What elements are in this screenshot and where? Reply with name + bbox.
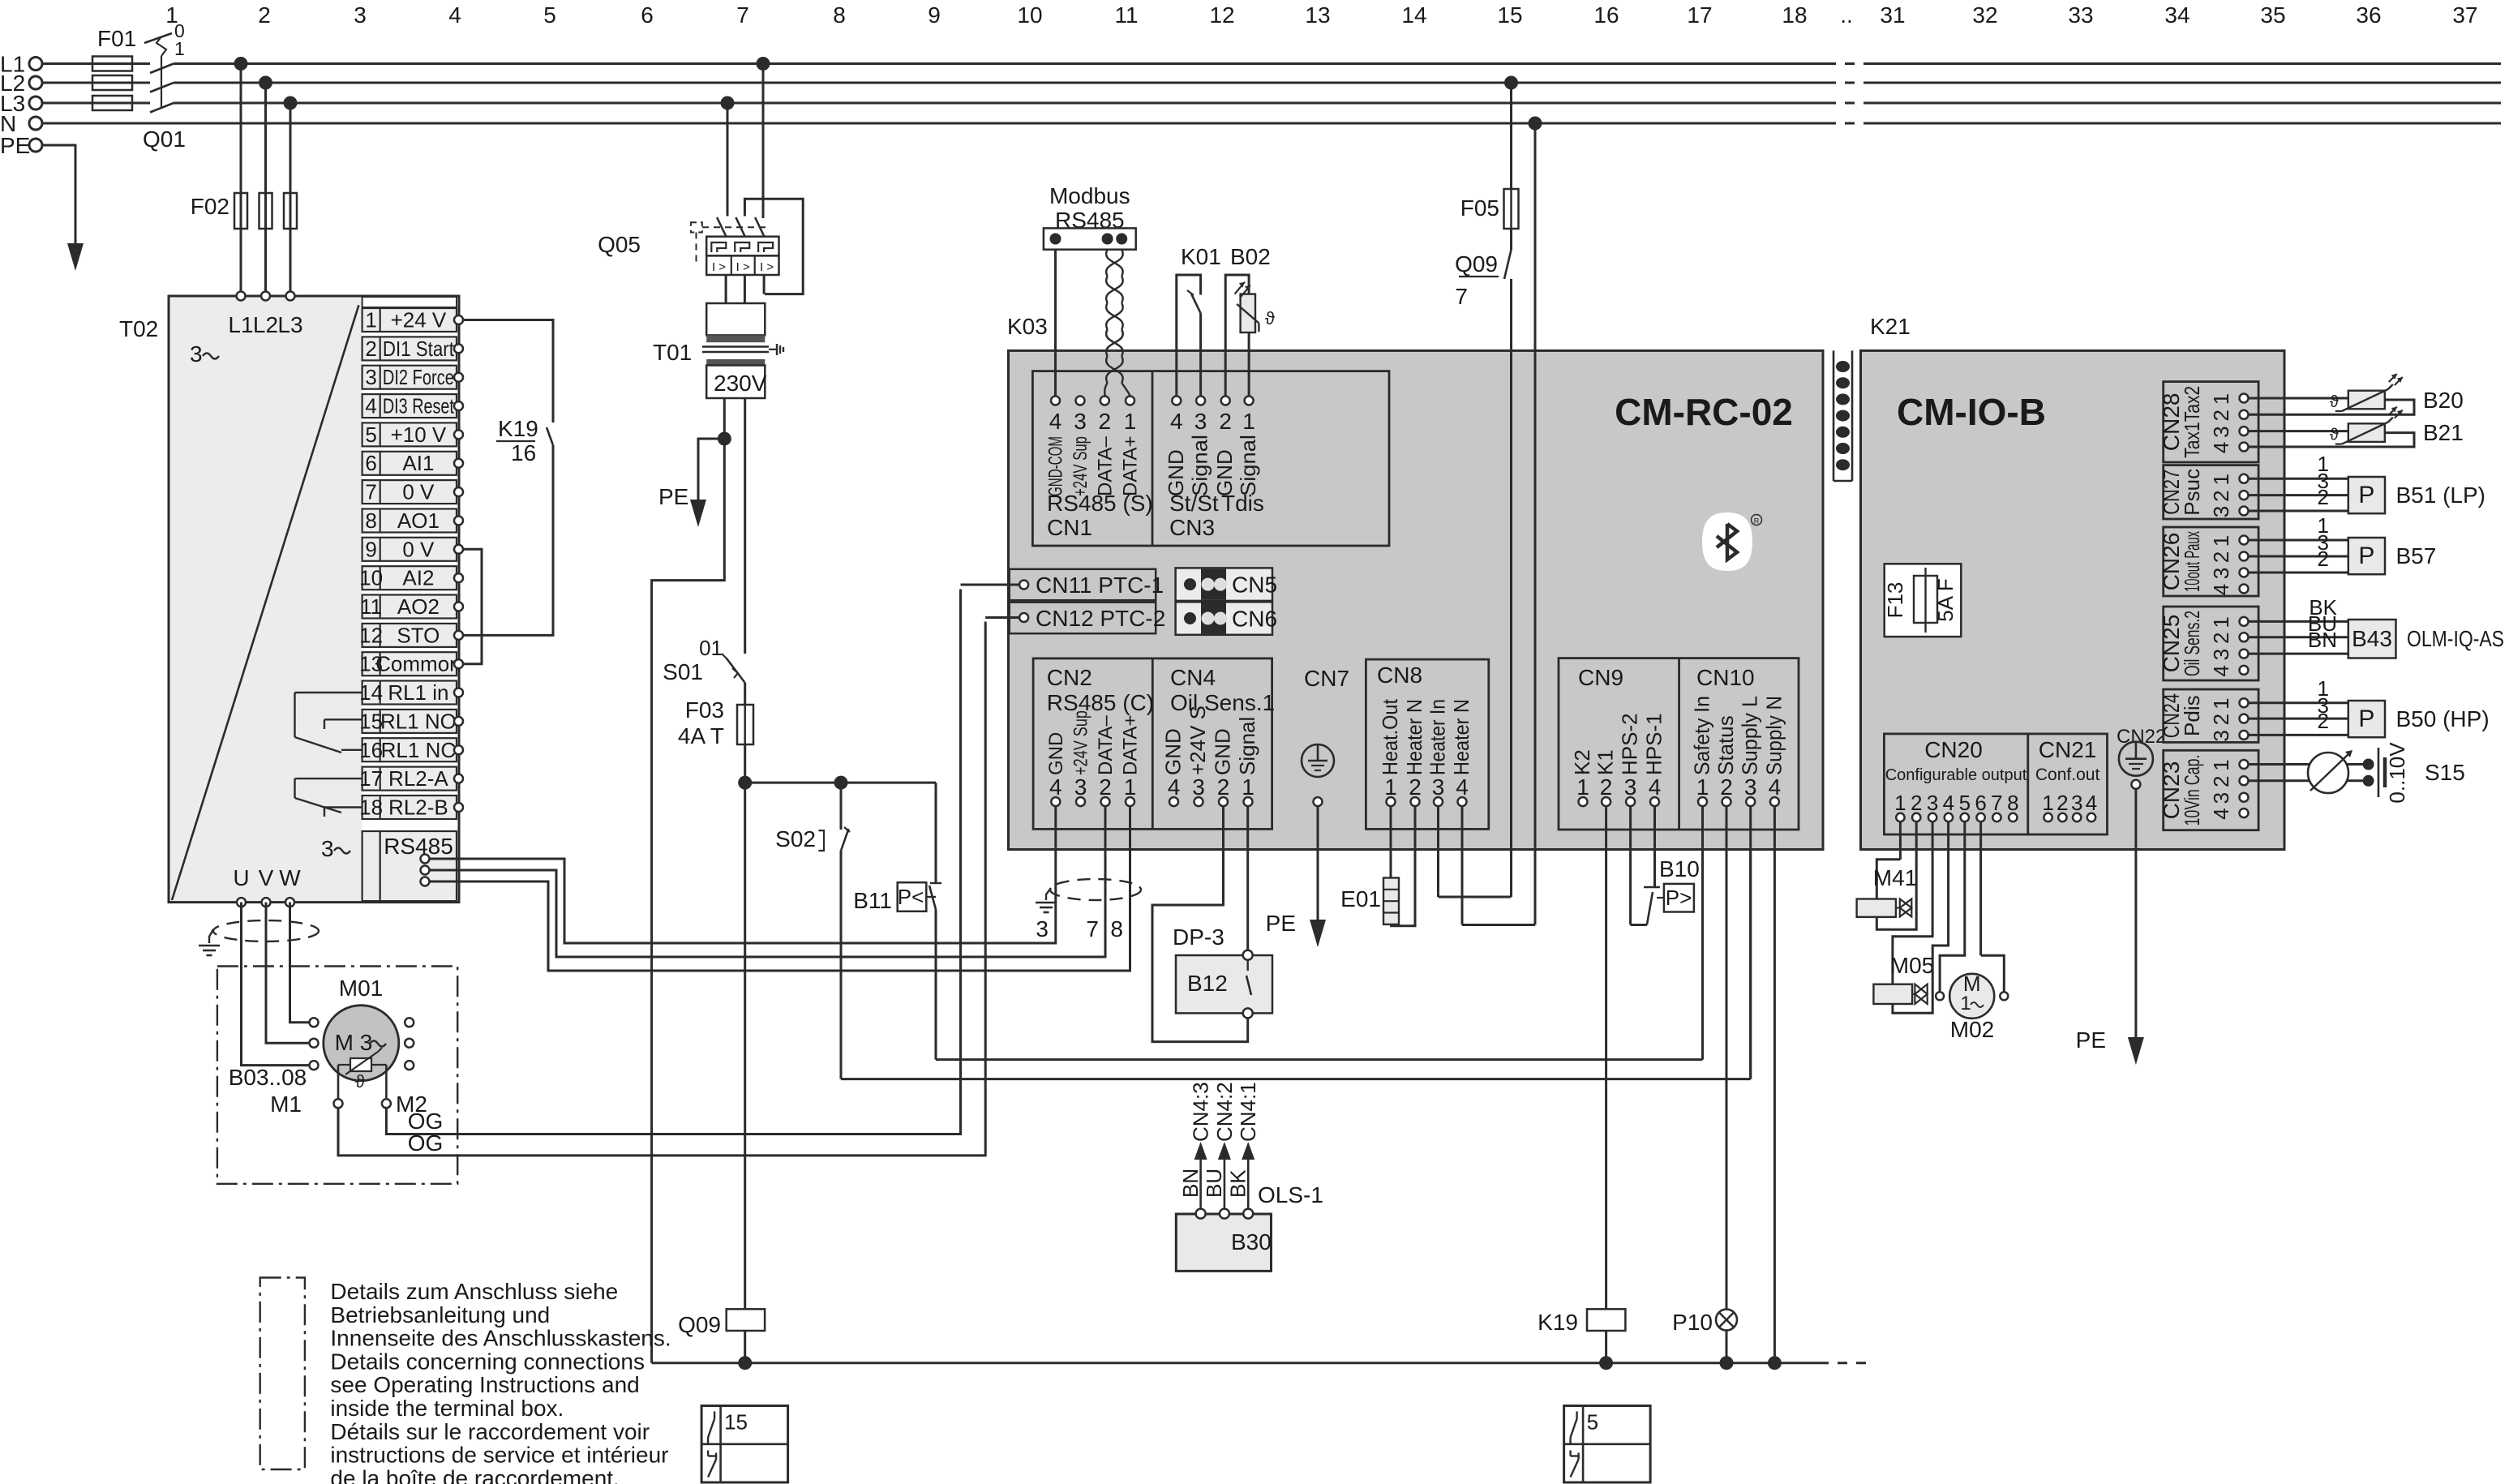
- svg-text:BU: BU: [1202, 1169, 1226, 1198]
- svg-text:ϑ: ϑ: [1265, 308, 1275, 328]
- svg-text:4: 4: [1943, 791, 1954, 815]
- svg-text:3: 3: [321, 836, 334, 861]
- svg-text:B57: B57: [2396, 543, 2437, 568]
- svg-text:AO2: AO2: [397, 594, 440, 619]
- svg-text:3: 3: [1744, 774, 1757, 800]
- svg-text:3: 3: [2071, 791, 2082, 815]
- svg-text:RL1 NC: RL1 NC: [381, 738, 456, 762]
- svg-text:8: 8: [833, 2, 846, 28]
- svg-text:PE: PE: [658, 484, 688, 509]
- svg-text:P<: P<: [898, 885, 924, 909]
- svg-text:4: 4: [2209, 808, 2233, 819]
- svg-text:10: 10: [1017, 2, 1042, 28]
- svg-text:OG: OG: [408, 1130, 444, 1156]
- svg-text:3: 3: [1074, 774, 1087, 800]
- svg-text:+24 V: +24 V: [391, 308, 447, 332]
- svg-text:0..10V: 0..10V: [2385, 742, 2409, 804]
- svg-text:3: 3: [354, 2, 367, 28]
- svg-text:B51 (LP): B51 (LP): [2396, 483, 2486, 508]
- svg-text:1: 1: [1124, 774, 1137, 800]
- svg-text:Conf.out: Conf.out: [2035, 766, 2100, 784]
- svg-text:1: 1: [1576, 774, 1589, 800]
- svg-text:2: 2: [1219, 409, 1232, 434]
- svg-text:I >: I >: [712, 260, 726, 274]
- svg-text:Oil Sens.1: Oil Sens.1: [1170, 690, 1275, 715]
- svg-text:16: 16: [1593, 2, 1619, 28]
- svg-text:I >: I >: [736, 260, 750, 274]
- svg-text:B12: B12: [1187, 971, 1228, 996]
- svg-text:Tax1Tax2: Tax1Tax2: [2180, 386, 2204, 458]
- svg-text:7: 7: [1991, 791, 2002, 815]
- svg-text:GND: GND: [1212, 449, 1237, 496]
- svg-text:Heater N: Heater N: [1402, 699, 1426, 775]
- svg-text:B10: B10: [1659, 856, 1700, 881]
- svg-text:9: 9: [365, 537, 376, 561]
- svg-text:2: 2: [258, 2, 271, 28]
- svg-text:instructions de service et int: instructions de service et intérieur: [330, 1443, 668, 1468]
- svg-text:K1: K1: [1593, 749, 1618, 775]
- svg-text:15: 15: [359, 709, 383, 733]
- svg-text:Psuc: Psuc: [2180, 469, 2204, 516]
- svg-text:2: 2: [2318, 547, 2329, 571]
- svg-text:16: 16: [511, 440, 536, 465]
- svg-text:1: 1: [2209, 535, 2233, 547]
- svg-text:Q09: Q09: [678, 1312, 721, 1337]
- svg-text:+10 V: +10 V: [391, 422, 447, 447]
- svg-text:15: 15: [724, 1410, 748, 1435]
- svg-text:CN7: CN7: [1304, 666, 1349, 691]
- svg-text:AI1: AI1: [402, 451, 434, 475]
- svg-text:01: 01: [699, 636, 723, 660]
- svg-text:1: 1: [2209, 697, 2233, 709]
- svg-text:ϑ: ϑ: [2330, 427, 2339, 444]
- svg-text:4: 4: [1049, 774, 1062, 800]
- svg-text:HPS-1: HPS-1: [1642, 713, 1666, 775]
- svg-text:4: 4: [365, 394, 376, 418]
- svg-text:L2: L2: [253, 312, 278, 337]
- svg-text:+24V Sup: +24V Sup: [1070, 436, 1092, 496]
- svg-text:3: 3: [1927, 791, 1938, 815]
- svg-text:K01: K01: [1181, 244, 1221, 269]
- svg-text:15: 15: [1497, 2, 1522, 28]
- svg-text:0 V: 0 V: [402, 480, 435, 504]
- svg-text:3: 3: [2209, 426, 2233, 437]
- svg-text:DATA–: DATA–: [1095, 715, 1117, 775]
- svg-text:T01: T01: [653, 340, 692, 365]
- svg-text:2: 2: [1409, 774, 1422, 800]
- svg-text:8: 8: [365, 508, 376, 533]
- svg-text:B20: B20: [2423, 388, 2464, 413]
- svg-text:2: 2: [2209, 551, 2233, 563]
- svg-text:3: 3: [365, 365, 376, 389]
- svg-text:0 V: 0 V: [402, 537, 435, 561]
- svg-text:CN4:3: CN4:3: [1189, 1082, 1213, 1142]
- svg-text:RL2-A: RL2-A: [388, 766, 448, 791]
- svg-text:4: 4: [1168, 774, 1181, 800]
- svg-text:P>: P>: [1666, 886, 1692, 910]
- svg-text:HPS-2: HPS-2: [1618, 713, 1642, 775]
- svg-text:2: 2: [1099, 409, 1112, 434]
- svg-text:Heater In: Heater In: [1426, 699, 1450, 775]
- svg-text:RL2-B: RL2-B: [388, 796, 448, 820]
- svg-text:1: 1: [1242, 409, 1255, 434]
- svg-text:4: 4: [1769, 774, 1782, 800]
- svg-text:P: P: [2358, 706, 2374, 732]
- svg-text:B21: B21: [2423, 420, 2464, 445]
- svg-text:AI2: AI2: [402, 566, 434, 590]
- svg-text:OLS-1: OLS-1: [1258, 1182, 1323, 1207]
- svg-text:17: 17: [1687, 2, 1712, 28]
- svg-text:RS485 (C): RS485 (C): [1047, 690, 1154, 715]
- svg-text:M1: M1: [270, 1092, 302, 1117]
- svg-text:DATA+: DATA+: [1120, 436, 1142, 496]
- svg-text:34: 34: [2164, 2, 2189, 28]
- svg-text:3: 3: [2209, 506, 2233, 517]
- svg-text:230V: 230V: [714, 371, 767, 396]
- svg-text:Pdis: Pdis: [2180, 695, 2204, 736]
- svg-text:F01: F01: [97, 26, 136, 51]
- svg-text:4: 4: [2209, 665, 2233, 676]
- svg-text:Q01: Q01: [143, 127, 186, 152]
- svg-text:Common: Common: [375, 652, 461, 676]
- svg-text:V: V: [259, 865, 274, 890]
- svg-text:Modbus: Modbus: [1049, 183, 1130, 208]
- svg-text:2: 2: [1720, 774, 1733, 800]
- svg-text:Supply N: Supply N: [1761, 696, 1786, 775]
- svg-text:4: 4: [2209, 584, 2233, 595]
- svg-text:+24V S: +24V S: [1186, 706, 1210, 775]
- svg-text:13: 13: [1305, 2, 1330, 28]
- svg-text:1: 1: [1894, 791, 1906, 815]
- svg-text:PE: PE: [2076, 1027, 2106, 1053]
- svg-text:Configurable output: Configurable output: [1885, 766, 2027, 784]
- svg-text:CN1: CN1: [1047, 515, 1092, 540]
- svg-text:10Vin Cap.: 10Vin Cap.: [2180, 755, 2204, 826]
- svg-text:ϑ: ϑ: [355, 1071, 365, 1092]
- svg-text:L3: L3: [277, 312, 302, 337]
- svg-text:5: 5: [543, 2, 556, 28]
- svg-text:RL1 in: RL1 in: [388, 680, 448, 705]
- svg-text:St/St: St/St: [1169, 491, 1219, 516]
- svg-text:CN12 PTC-2: CN12 PTC-2: [1036, 606, 1165, 631]
- svg-text:RS485: RS485: [384, 834, 453, 859]
- svg-text:CN10: CN10: [1696, 665, 1755, 690]
- svg-text:Betriebsanleitung und: Betriebsanleitung und: [330, 1302, 550, 1327]
- svg-text:6: 6: [365, 451, 376, 475]
- svg-text:S02: S02: [775, 826, 816, 851]
- svg-text:Tdis: Tdis: [1221, 491, 1264, 516]
- svg-text:ϑ: ϑ: [2330, 393, 2339, 411]
- svg-text:7: 7: [736, 2, 749, 28]
- svg-text:CN2: CN2: [1047, 665, 1092, 690]
- svg-text:T02: T02: [119, 316, 158, 341]
- svg-text:CM-IO-B: CM-IO-B: [1897, 391, 2046, 433]
- svg-text:BK: BK: [1226, 1169, 1250, 1198]
- svg-text:F02: F02: [191, 194, 229, 219]
- svg-text:36: 36: [2356, 2, 2381, 28]
- svg-text:1: 1: [1696, 774, 1709, 800]
- svg-text:7: 7: [1086, 916, 1099, 941]
- svg-text:S15: S15: [2425, 760, 2465, 785]
- svg-text:GND: GND: [1211, 728, 1235, 775]
- svg-text:CN9: CN9: [1578, 665, 1623, 690]
- svg-text:5: 5: [1587, 1410, 1598, 1435]
- svg-text:31: 31: [1880, 2, 1905, 28]
- svg-text:7: 7: [1455, 284, 1468, 309]
- svg-text:I >: I >: [760, 260, 774, 274]
- svg-text:Signal: Signal: [1235, 717, 1259, 775]
- svg-text:B43: B43: [2352, 626, 2392, 651]
- svg-text:PE: PE: [0, 133, 30, 158]
- svg-text:GND: GND: [1161, 728, 1186, 775]
- svg-text:3: 3: [2209, 568, 2233, 579]
- svg-text:33: 33: [2068, 2, 2093, 28]
- svg-text:1: 1: [2209, 393, 2233, 405]
- svg-text:S01: S01: [663, 659, 703, 684]
- svg-text:1: 1: [2209, 616, 2233, 628]
- svg-text:5: 5: [1959, 791, 1971, 815]
- svg-text:PE: PE: [1266, 911, 1296, 936]
- svg-text:12: 12: [1209, 2, 1234, 28]
- svg-text:M02: M02: [1950, 1017, 1994, 1042]
- svg-text:1: 1: [2042, 791, 2053, 815]
- svg-text:K21: K21: [1870, 314, 1911, 339]
- svg-text:RL1 NO: RL1 NO: [380, 709, 457, 733]
- svg-text:2: 2: [2209, 490, 2233, 501]
- svg-text:Q09: Q09: [1455, 251, 1498, 277]
- svg-text:L1: L1: [228, 312, 253, 337]
- svg-text:18: 18: [359, 796, 383, 820]
- svg-text:6: 6: [1975, 791, 1986, 815]
- svg-text:AO1: AO1: [397, 508, 440, 533]
- svg-text:BN: BN: [1178, 1169, 1203, 1198]
- svg-text:DI1 Start: DI1 Start: [383, 337, 455, 361]
- svg-text:B02: B02: [1230, 244, 1271, 269]
- svg-text:GND: GND: [1164, 449, 1188, 496]
- svg-text:11: 11: [1114, 2, 1138, 28]
- svg-text:2: 2: [1600, 774, 1613, 800]
- svg-text:12: 12: [359, 623, 383, 647]
- svg-text:4: 4: [2086, 791, 2097, 815]
- svg-text:9: 9: [928, 2, 941, 28]
- svg-text:1: 1: [2209, 759, 2233, 770]
- svg-text:16: 16: [359, 738, 383, 762]
- svg-text:Details zum Anschluss siehe: Details zum Anschluss siehe: [330, 1279, 618, 1304]
- svg-text:3: 3: [1192, 774, 1205, 800]
- svg-text:2: 2: [1217, 774, 1230, 800]
- svg-text:B11: B11: [853, 888, 892, 913]
- svg-text:GND: GND: [1045, 732, 1067, 775]
- svg-text:2: 2: [2318, 485, 2329, 509]
- svg-text:F05: F05: [1460, 195, 1499, 221]
- svg-text:Heat.Out: Heat.Out: [1378, 698, 1402, 775]
- svg-text:4A T: 4A T: [678, 723, 724, 748]
- svg-text:6: 6: [641, 2, 654, 28]
- svg-text:4: 4: [1170, 409, 1183, 434]
- svg-text:3: 3: [1036, 916, 1049, 941]
- svg-text:4: 4: [1456, 774, 1469, 800]
- svg-text:P: P: [2358, 543, 2374, 569]
- svg-text:M 3: M 3: [335, 1030, 373, 1055]
- svg-text:2: 2: [2209, 776, 2233, 787]
- svg-text:P10: P10: [1672, 1310, 1713, 1335]
- svg-text:Signal: Signal: [1236, 435, 1260, 496]
- svg-text:see Operating Instructions and: see Operating Instructions and: [330, 1372, 639, 1397]
- svg-text:CN5: CN5: [1232, 573, 1277, 598]
- svg-text:Safety In: Safety In: [1690, 696, 1714, 775]
- svg-text:1: 1: [174, 38, 185, 59]
- svg-text:B50 (HP): B50 (HP): [2396, 706, 2490, 731]
- svg-text:M41: M41: [1873, 865, 1917, 890]
- svg-text:4: 4: [448, 2, 461, 28]
- svg-text:Innenseite des Anschlusskasten: Innenseite des Anschlusskastens.: [330, 1326, 671, 1351]
- svg-text:DI2 Force: DI2 Force: [383, 365, 454, 389]
- svg-text:CN4:1: CN4:1: [1236, 1082, 1260, 1142]
- svg-text:32: 32: [1972, 2, 1997, 28]
- svg-text:K19: K19: [1538, 1310, 1578, 1335]
- svg-text:2: 2: [2057, 791, 2068, 815]
- svg-text:CM-RC-02: CM-RC-02: [1615, 391, 1793, 433]
- svg-text:OLM-IQ-AS: OLM-IQ-AS: [2407, 626, 2504, 651]
- svg-text:CN4:2: CN4:2: [1212, 1082, 1237, 1142]
- svg-text:Signal: Signal: [1188, 435, 1212, 496]
- svg-text:35: 35: [2260, 2, 2285, 28]
- svg-text:B30: B30: [1231, 1229, 1272, 1255]
- svg-text:7: 7: [365, 480, 376, 504]
- svg-text:18: 18: [1782, 2, 1807, 28]
- svg-text:4: 4: [2209, 442, 2233, 453]
- svg-text:1: 1: [1384, 774, 1397, 800]
- svg-text:E01: E01: [1340, 886, 1381, 911]
- svg-text:F13: F13: [1883, 582, 1907, 619]
- svg-text:11: 11: [360, 594, 382, 619]
- svg-text:8: 8: [1110, 916, 1123, 941]
- svg-text:+24V Sup: +24V Sup: [1070, 710, 1092, 775]
- svg-text:1: 1: [2209, 474, 2233, 485]
- svg-text:3: 3: [2209, 649, 2233, 660]
- svg-text:CN20: CN20: [1924, 737, 1983, 762]
- svg-text:3: 3: [2209, 792, 2233, 804]
- svg-text:CN4: CN4: [1170, 665, 1216, 690]
- svg-text:DATA+: DATA+: [1120, 715, 1142, 775]
- svg-text:2: 2: [1911, 791, 1922, 815]
- svg-text:1: 1: [1124, 409, 1137, 434]
- svg-text:17: 17: [359, 766, 383, 791]
- svg-text:4: 4: [1649, 774, 1662, 800]
- svg-text:3: 3: [2209, 730, 2233, 741]
- svg-text:GND-COM: GND-COM: [1045, 436, 1067, 496]
- svg-text:STO: STO: [397, 623, 440, 647]
- svg-text:U: U: [233, 865, 249, 890]
- svg-text:5A F: 5A F: [1933, 578, 1958, 621]
- svg-text:14: 14: [359, 680, 383, 705]
- svg-text:1: 1: [1960, 993, 1971, 1014]
- svg-text:3: 3: [1074, 409, 1087, 434]
- svg-text:2: 2: [2209, 633, 2233, 644]
- svg-text:2: 2: [2209, 714, 2233, 725]
- svg-text:K2: K2: [1570, 749, 1594, 775]
- svg-text:M01: M01: [339, 976, 383, 1001]
- svg-text:Q05: Q05: [598, 232, 641, 257]
- svg-text:M05: M05: [1890, 953, 1934, 978]
- svg-text:CN6: CN6: [1232, 607, 1277, 632]
- svg-text:Détails sur le raccordement vo: Détails sur le raccordement voir: [330, 1419, 650, 1444]
- svg-text:RS485 (S): RS485 (S): [1047, 491, 1153, 516]
- svg-text:inside the terminal box.: inside the terminal box.: [330, 1396, 564, 1421]
- svg-text:Heater N: Heater N: [1449, 699, 1473, 775]
- svg-text:F03: F03: [685, 697, 724, 723]
- svg-text:K03: K03: [1007, 314, 1048, 339]
- svg-text:1: 1: [1242, 774, 1254, 800]
- svg-text:DATA–: DATA–: [1094, 436, 1116, 496]
- svg-text:DP-3: DP-3: [1173, 924, 1224, 950]
- svg-text:10: 10: [359, 566, 383, 590]
- svg-text:2: 2: [365, 337, 376, 361]
- svg-text:Details concerning connections: Details concerning connections: [330, 1349, 645, 1374]
- svg-text:..: ..: [1840, 2, 1853, 28]
- svg-text:Oil Sens.2: Oil Sens.2: [2180, 611, 2204, 676]
- svg-text:10out Paux: 10out Paux: [2180, 531, 2204, 592]
- svg-text:CN3: CN3: [1169, 515, 1215, 540]
- svg-text:CN8: CN8: [1377, 663, 1422, 688]
- svg-text:P: P: [2358, 482, 2374, 508]
- svg-text:37: 37: [2452, 2, 2477, 28]
- svg-text:3: 3: [1624, 774, 1637, 800]
- svg-text:2: 2: [2318, 709, 2329, 733]
- svg-text:2: 2: [1099, 774, 1112, 800]
- svg-text:de la boîte de raccordement.: de la boîte de raccordement.: [330, 1465, 619, 1484]
- svg-text:2: 2: [2209, 410, 2233, 421]
- svg-text:BN: BN: [2308, 628, 2337, 652]
- svg-text:K19: K19: [498, 416, 538, 441]
- svg-text:3: 3: [1432, 774, 1445, 800]
- svg-text:14: 14: [1401, 2, 1426, 28]
- svg-text:B03..08: B03..08: [229, 1065, 307, 1090]
- svg-text:CN21: CN21: [2039, 737, 2097, 762]
- svg-text:Status: Status: [1713, 715, 1738, 775]
- svg-text:3: 3: [190, 341, 203, 367]
- svg-text:1: 1: [365, 308, 376, 332]
- svg-text:Supply L: Supply L: [1738, 696, 1762, 775]
- svg-text:DI3 Reset: DI3 Reset: [383, 394, 455, 418]
- svg-text:CN11 PTC-1: CN11 PTC-1: [1036, 573, 1164, 598]
- svg-text:8: 8: [2007, 791, 2018, 815]
- svg-text:5: 5: [365, 422, 376, 447]
- svg-text:3: 3: [1194, 409, 1207, 434]
- svg-text:W: W: [279, 865, 301, 890]
- svg-text:R: R: [1754, 517, 1760, 525]
- svg-text:4: 4: [1049, 409, 1062, 434]
